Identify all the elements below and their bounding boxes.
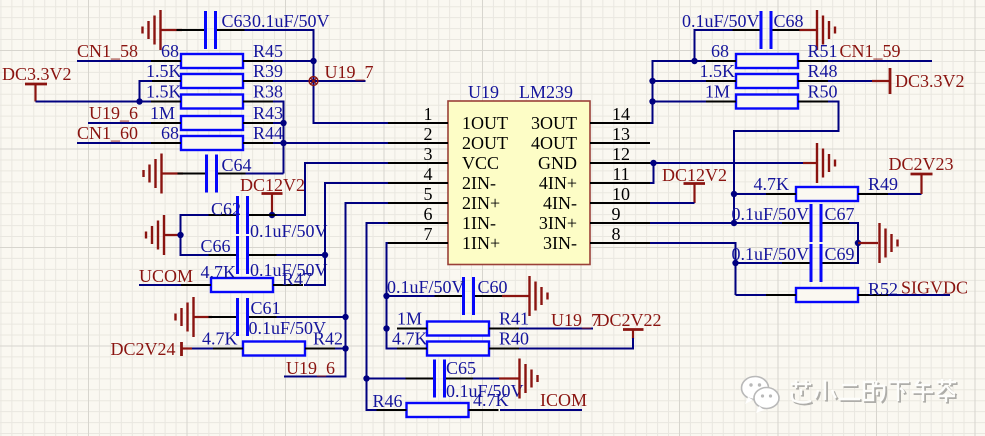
svg-text:U19: U19 [468,82,499,102]
svg-text:SIGVDC: SIGVDC [901,278,968,298]
resistor R41 leads [397,328,519,330]
svg-text:9: 9 [612,204,621,224]
wire UCOM to R47 [139,284,182,286]
resistor R48 leads [706,80,828,82]
power bar DC12V2 (right) [684,184,706,204]
resistor R52 [796,288,858,302]
wire C62 left [181,215,209,255]
svg-text:R51: R51 [808,41,838,61]
pin 8 (3IN-) stub [590,242,650,244]
svg-text:1IN+: 1IN+ [462,233,500,253]
ground (C68 right) [817,10,835,50]
junction node C69/pin8 [732,260,738,266]
svg-text:4.7K: 4.7K [392,329,428,349]
wire C63 right to pin1 vertical [245,30,389,123]
svg-text:3: 3 [424,144,433,164]
pin 12 (GND) stub [590,162,650,164]
svg-text:12: 12 [612,144,630,164]
pin 5 (2IN+) stub [388,202,448,204]
wire pin6 down to R46 [367,223,389,410]
ground stub to C61 [194,316,213,318]
wire R51 right CN1_59 [828,60,932,62]
wire R44 right to pin2 [273,142,388,144]
svg-text:DC2V24: DC2V24 [111,339,176,359]
ground (GND pin12) [817,143,835,183]
resistor R44 leads [151,142,273,144]
power bar DC3.3V2 (right) [872,68,890,94]
capacitor C61 [209,298,277,336]
svg-text:CN1_58: CN1_58 [77,41,138,61]
ground stub C67/C69 [858,242,878,244]
svg-text:R47: R47 [282,269,312,289]
pin 9 (3IN+) stub [590,222,650,224]
capacitor C69 [782,244,850,282]
wire pin12 to ground and pin11 [650,162,803,164]
svg-text:R38: R38 [253,82,283,102]
pin 14 (3OUT) stub [590,122,650,124]
resistor R41 [427,322,489,336]
junction node R45/C63 [310,58,316,64]
wire pin9 to C67 [650,222,785,224]
svg-text:4OUT: 4OUT [531,133,577,153]
ground (C62/C66 left) [146,215,164,255]
resistor R50 leads [706,101,828,103]
wire C65 right [473,378,499,380]
wire R38 right down [273,102,284,174]
resistor R39 leads [151,80,273,82]
svg-text:3IN-: 3IN- [543,233,577,253]
wire R39 left [140,81,153,102]
svg-text:GND: GND [538,153,577,173]
wire C68 left down to R51 [695,30,733,61]
svg-text:DC3.3V2: DC3.3V2 [895,71,965,91]
resistor R44 [181,136,243,150]
svg-text:DC12V2: DC12V2 [662,165,727,185]
wire DC2V24 to R42 [192,348,213,350]
capacitor C64 [178,155,246,193]
svg-text:1.5K: 1.5K [700,61,736,81]
wire C67 right down [850,223,859,263]
svg-text:CN1_59: CN1_59 [840,41,901,61]
svg-text:4.7K: 4.7K [754,174,790,194]
wire pin7 down to R40 [387,243,398,349]
ground (C64 left) [144,154,162,194]
resistor R49 leads [766,193,888,195]
svg-text:2: 2 [424,124,433,144]
junction node R43 right [280,120,286,126]
svg-text:4.7K: 4.7K [473,390,509,410]
svg-text:4IN+: 4IN+ [539,173,577,193]
pin 2 (2OUT) stub [388,142,448,144]
wire R42 right [335,348,346,350]
svg-text:4.7K: 4.7K [202,329,238,349]
wire U19_6 to R43 [88,122,152,124]
svg-text:U19_6: U19_6 [89,103,138,123]
ground stub C60 [502,295,530,297]
resistor R50 [736,95,798,109]
op-amp/comparator U19 LM239 body [448,101,590,265]
svg-text:1M: 1M [397,309,422,329]
svg-text:5: 5 [424,184,433,204]
watermark text 芯小二的下午茶 (stroke approximation) [793,381,958,405]
capacitor C62 [209,196,277,234]
pin 11 (4IN+) stub [590,182,650,184]
svg-text:3OUT: 3OUT [531,113,577,133]
resistor R45 [181,54,243,68]
wire C69 left [736,262,786,264]
wire R48 right [828,80,872,82]
wire C60 right [502,295,503,297]
svg-text:R43: R43 [253,103,283,123]
resistor R51 [736,54,798,68]
wire R52 left [736,294,767,296]
svg-text:1M: 1M [150,103,175,123]
svg-text:DC2V23: DC2V23 [889,154,954,174]
svg-text:2IN-: 2IN- [462,173,496,193]
capacitor C68 [732,11,800,49]
svg-text:68: 68 [161,123,179,143]
svg-text:U19_7: U19_7 [325,62,374,82]
svg-text:C62: C62 [211,199,241,219]
power bar DC12V2 (left) [262,194,283,216]
svg-text:0.1uF/50V: 0.1uF/50V [682,11,760,31]
junction node C61/pin5 [342,314,348,320]
junction node R42/pin5 [342,345,348,351]
ground (C61 left) [176,297,194,337]
junction node R41/pin7 [383,325,389,331]
svg-text:U19_7: U19_7 [551,310,600,330]
resistor leads [181,284,303,286]
junction node pin12 [650,160,656,166]
wire C62 right [277,214,306,216]
svg-text:CN1_60: CN1_60 [77,123,138,143]
svg-text:7: 7 [424,224,433,244]
ground stub to C63 [161,29,183,31]
pin 13 (4OUT) stub [590,142,650,144]
wire CN1_60 to R44 [77,142,152,144]
ground (C60 right) [530,276,548,316]
ground stub to C64 [162,172,184,174]
svg-text:6: 6 [424,204,433,224]
svg-text:68: 68 [161,41,179,61]
junction node C60/pin7 [383,293,389,299]
wire R41 right U19_7 [519,328,593,330]
svg-text:1IN-: 1IN- [462,213,496,233]
svg-text:R46: R46 [373,391,403,411]
ground (C63 left) [143,10,161,50]
wire R43 right [273,122,284,124]
junction node C65/pin6 [363,375,369,381]
svg-text:0.1uF/50V: 0.1uF/50V [731,204,809,224]
svg-text:C61: C61 [251,298,281,318]
power bar DC2V24 [182,342,193,356]
svg-text:C69: C69 [825,244,855,264]
capacitor C60 [435,277,503,315]
capacitor C67 [782,204,850,242]
power bar DC2V23 [911,174,933,194]
svg-text:11: 11 [612,164,629,184]
svg-text:10: 10 [612,184,630,204]
wire R45 right [273,60,314,62]
wire C61 right to pin5 vertical [277,316,346,318]
svg-text:DC2V22: DC2V22 [597,310,662,330]
svg-text:R44: R44 [253,123,283,143]
wire R40 right to DC2V22 [519,338,633,349]
resistor R38 [181,95,243,109]
resistor R47 [211,278,273,292]
junction node DC12V2 stem [269,212,275,218]
wire CN1_58 [77,60,152,62]
wire R46 right ICOM [500,409,582,411]
svg-text:4IN-: 4IN- [543,193,577,213]
ground stub C65 [499,377,520,379]
ground (C67/C69 right) [880,223,898,263]
wire pin8 down to C69 [650,243,736,295]
svg-text:R42: R42 [313,329,343,349]
resistor R43 [181,116,243,130]
svg-text:C63: C63 [222,11,252,31]
pin 6 (1IN-) stub [388,222,448,224]
svg-text:R48: R48 [808,61,838,81]
junction node R44 right [280,140,286,146]
svg-text:14: 14 [612,104,630,124]
resistor R42 leads [213,348,335,350]
svg-text:68: 68 [711,41,729,61]
resistor R45 leads [151,60,273,62]
wire R49 left [734,193,766,195]
resistor R48 [736,74,798,88]
wire C64 right up to R44 node [246,173,284,175]
pin 10 (4IN-) stub [590,202,650,204]
capacitor C63 [177,11,245,49]
resistor R43 leads [151,122,273,124]
resistor leads [377,409,499,411]
wire C66 right to pin4 vertical [277,254,326,256]
svg-text:UCOM: UCOM [139,266,193,286]
junction node ground tap C62/C66 [177,232,183,238]
pin 1 (1OUT) stub [388,122,448,124]
svg-text:1M: 1M [705,82,730,102]
wire R49 right [888,193,922,195]
junction node R48 left [649,78,655,84]
svg-text:2IN+: 2IN+ [462,193,500,213]
svg-text:1OUT: 1OUT [462,113,508,133]
wire R50 left [653,101,707,103]
wire R50 right down to R49/C67 [734,102,839,224]
wire C60 left [387,295,436,297]
junction node C67/C69 ground tap [855,240,861,246]
svg-text:3IN+: 3IN+ [539,213,577,233]
resistor leads [766,294,888,296]
svg-text:R45: R45 [253,41,283,61]
wire C65 left [367,378,407,380]
junction node C66/pin4 [322,252,328,258]
svg-text:VCC: VCC [462,153,499,173]
svg-text:C64: C64 [222,155,252,175]
resistor R46 [407,403,469,417]
capacitor C66 [209,236,277,274]
resistor R49 [796,187,858,201]
resistor R38 leads [151,101,273,103]
junction node R50 left [649,98,655,104]
power bar DC2V22 [623,330,644,340]
svg-text:C60: C60 [478,277,508,297]
svg-text:0.1uF/50V: 0.1uF/50V [252,11,330,31]
svg-text:R41: R41 [499,309,529,329]
svg-text:4.7K: 4.7K [201,262,237,282]
wire pin12 down to pin11 [650,163,654,183]
svg-text:C65: C65 [446,358,476,378]
svg-text:DC3.3V2: DC3.3V2 [2,64,72,84]
svg-text:R49: R49 [868,174,898,194]
ground stub to C62/C66 [164,234,181,236]
svg-text:R39: R39 [253,61,283,81]
junction node DC3.3V2/R38 [136,98,142,104]
wire pin3 VCC down to C62 row [272,163,388,215]
svg-text:C67: C67 [825,204,855,224]
ground (C65 right) [520,359,538,399]
svg-text:C66: C66 [201,236,231,256]
svg-text:DC12V2: DC12V2 [240,175,305,195]
wire R51 left vertical [650,61,706,123]
svg-text:1.5K: 1.5K [146,82,182,102]
wire R52 right SIGVDC [888,294,950,296]
no-ERC marker at R39/vertical crossing [309,77,318,86]
ground stub pin12 [803,162,817,164]
svg-text:R50: R50 [808,82,838,102]
watermark logo chat-bubble icon [742,377,780,414]
power bar DC3.3V2 (left) [25,84,47,102]
pin 3 (VCC) stub [388,162,448,164]
svg-text:4: 4 [424,164,433,184]
resistor R40 [427,342,489,356]
junction node C68/R51 [691,58,697,64]
wire pin5 down [284,203,388,377]
svg-text:8: 8 [612,224,621,244]
svg-text:ICOM: ICOM [540,390,587,410]
svg-text:13: 13 [612,124,630,144]
resistor R42 [243,342,305,356]
resistor R40 leads [397,348,519,350]
pin 7 (1IN+) stub [388,242,448,244]
svg-text:0.1uF/50V: 0.1uF/50V [731,244,809,264]
svg-text:U19_6: U19_6 [286,358,335,378]
wire pin4 down to R47 [304,183,388,285]
svg-text:0.1uF/50V: 0.1uF/50V [387,277,465,297]
svg-text:LM239: LM239 [519,82,573,102]
svg-text:0.1uF/50V: 0.1uF/50V [250,221,328,241]
ground stub C68 [800,29,818,31]
wire pin10 [650,202,695,204]
svg-text:2OUT: 2OUT [462,133,508,153]
wire DC3.3V2 to R38 [36,101,153,103]
svg-text:1: 1 [424,104,433,124]
resistor R51 leads [706,60,828,62]
svg-text:C68: C68 [774,11,804,31]
capacitor C65 [406,360,474,398]
resistor R39 [181,74,243,88]
junction node C67/pin9 [731,220,737,226]
svg-text:R40: R40 [499,329,529,349]
svg-text:1.5K: 1.5K [146,61,182,81]
wire R39 right to U19_7 [273,80,366,82]
wire R48 left [653,80,707,82]
pin 4 (2IN-) stub [388,182,448,184]
junction node R49 tap [731,191,737,197]
